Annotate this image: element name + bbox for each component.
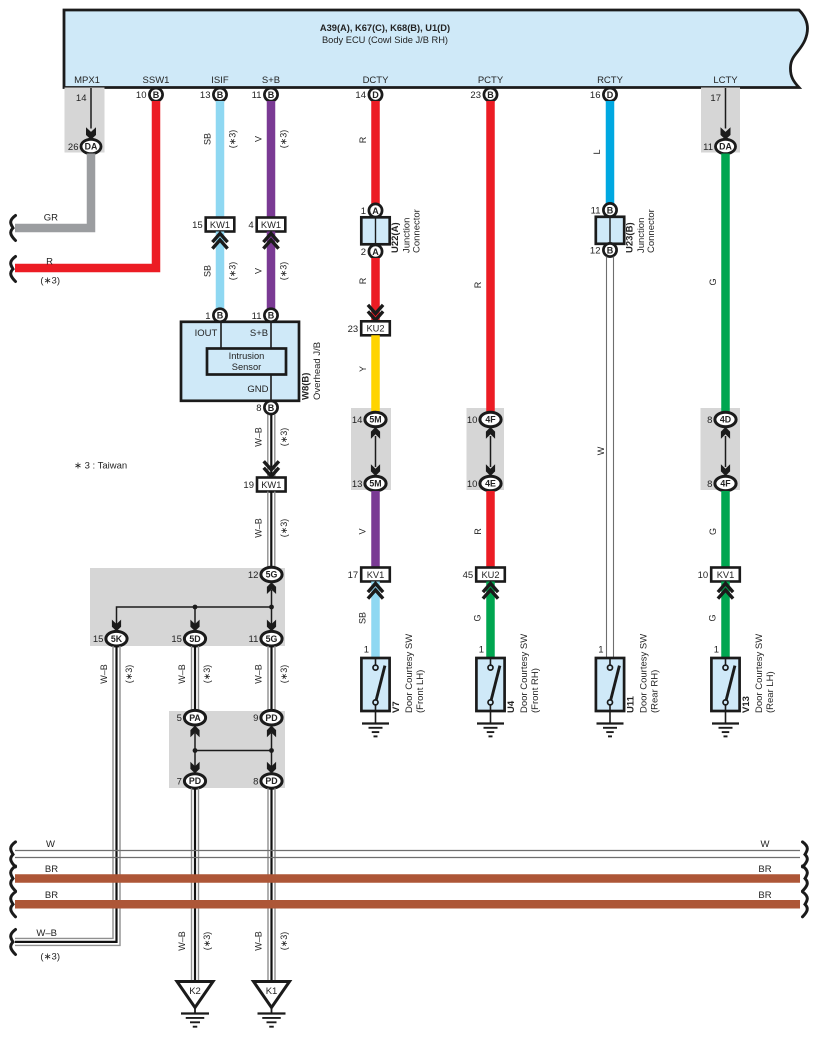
svg-text:8: 8 [256,403,261,414]
chevron arrows into KV1 pin 10 [718,584,733,599]
connector DA pin 26 [81,139,101,153]
svg-text:1: 1 [364,645,369,656]
svg-text:(Front LH): (Front LH) [415,670,426,713]
svg-text:BR: BR [758,864,771,875]
svg-text:U23(B): U23(B) [625,222,636,253]
svg-text:SB: SB [203,133,213,145]
wire G green to U4 [486,582,495,659]
svg-text:G: G [708,528,718,535]
wire W-B 5D to PA [191,646,193,711]
svg-text:8: 8 [707,415,712,426]
svg-text:(Rear LH): (Rear LH) [765,671,776,713]
connector KU2 pin 23 [361,321,390,335]
wire SB skyblue to V7 [371,582,380,659]
svg-text:26: 26 [68,142,79,153]
arrow out of 4F [486,427,495,439]
door courtesy switch U11 Rear RH [596,658,624,711]
connector 4E pin 10 [480,476,501,491]
svg-text:PD: PD [265,713,277,723]
shield box PCTY 4F/4E connectors [467,408,505,490]
wire break squiggle BR1 left [11,866,16,891]
wire SB skyblue ISIF lower [216,232,225,310]
svg-text:B: B [153,90,160,100]
svg-text:(∗3): (∗3) [228,130,238,149]
wire SB skyblue ISIF upper [216,101,225,218]
svg-text:10: 10 [136,90,147,101]
svg-text:11: 11 [591,206,601,217]
svg-text:10: 10 [467,479,478,490]
svg-text:KU2: KU2 [481,570,499,580]
wire R red PCTY upper [486,101,495,412]
svg-text:(∗3): (∗3) [279,130,289,149]
connector 5M pin 13 [365,476,386,491]
pin DCTY connector D 14 [369,88,382,101]
arrow into PD pin 8 [267,762,276,774]
arrow into PD pin 7 [190,762,199,774]
svg-text:KW1: KW1 [261,220,281,230]
svg-text:15: 15 [171,634,182,645]
chevron arrows into KW1 pin 4 [263,234,278,249]
wire break squiggle W left [11,842,16,867]
connector A pin 1 of U22 [369,204,382,217]
junction dot PD branch [269,748,274,753]
svg-text:12: 12 [248,570,259,581]
wire R red DCTY upper [371,101,380,204]
junction block wiring 5G to 5K/5D [271,590,273,607]
intrusion sensor inner box [207,349,286,375]
connector 4F pin 8 [715,476,736,491]
wire W-B from sensor GND [267,415,269,478]
ground K1 [254,982,290,1008]
connector PD pin 7 [184,774,205,789]
wire Y yellow DCTY [371,335,380,411]
arrow into 4E [486,464,495,476]
link line 4F to 4E [490,436,492,467]
svg-text:(∗3): (∗3) [279,932,289,951]
svg-text:(∗3): (∗3) [279,262,289,281]
svg-text:5M: 5M [369,479,381,489]
svg-text:KW1: KW1 [210,220,230,230]
svg-text:R: R [473,281,483,288]
pin MPX1 lead 14 with arrow [90,88,92,129]
arrow into 5K [112,620,121,632]
svg-text:U11: U11 [625,695,636,713]
junction dot PA branch [193,748,198,753]
chevron arrows into KW1 pin 19 [264,461,279,476]
svg-text:2: 2 [361,247,366,258]
svg-text:Intrusion: Intrusion [229,351,265,361]
wire break squiggle GR [11,216,16,241]
svg-text:IOUT: IOUT [195,328,218,339]
svg-text:10: 10 [467,415,478,426]
shield box LCTY 4D/4F connectors [701,408,741,490]
svg-text:10: 10 [698,570,709,581]
svg-text:R: R [473,528,483,535]
svg-text:23: 23 [348,324,359,335]
svg-text:(∗3): (∗3) [202,665,212,684]
svg-text:V: V [254,268,264,274]
svg-text:U22(A): U22(A) [390,222,401,253]
svg-text:GR: GR [44,213,58,224]
ECU box A39(A)/K67(C)/K68(B)/U1(D) Body ECU [64,10,807,88]
svg-text:1: 1 [714,645,719,656]
svg-text:B: B [607,205,614,215]
svg-text:4E: 4E [485,479,496,489]
svg-text:G: G [473,614,483,621]
svg-text:G: G [708,278,718,285]
wire W-B from 5K down and to left edge [15,646,113,938]
svg-text:14: 14 [355,90,366,101]
arrow into 5M pin 13 [371,464,380,476]
svg-text:14: 14 [352,415,363,426]
svg-text:W–B: W–B [36,928,57,939]
svg-text:13: 13 [200,90,211,101]
svg-text:19: 19 [243,480,254,491]
connector A pin 2 of U22 [369,245,382,258]
svg-text:KV1: KV1 [367,570,385,580]
svg-text:Door Courtesy SW: Door Courtesy SW [639,634,650,713]
svg-text:1: 1 [361,206,366,217]
svg-text:(Rear RH): (Rear RH) [649,670,660,713]
wire R red from SSW1 to left edge [15,101,156,268]
junction block box PA/PD [169,711,285,788]
connector 5M pin 14 [365,412,386,427]
junction connector U22(A) [361,217,389,244]
svg-text:W: W [596,446,606,455]
arrow into PD pin 9 [267,726,276,738]
svg-text:W–B: W–B [254,664,264,684]
svg-text:Connector: Connector [412,209,423,253]
chevron arrows into KV1 pin 17 [368,584,383,599]
connector B pin 1 intrusion sensor IOUT [213,309,226,322]
wire W white horizontal across page [15,850,800,852]
svg-text:8: 8 [253,777,258,788]
shield box at pin MPX1 [65,88,105,153]
connector KU2 pin 45 [476,568,505,582]
svg-text:K1: K1 [266,986,278,997]
svg-text:B: B [487,90,494,100]
svg-text:W: W [761,839,770,850]
svg-text:K2: K2 [189,986,201,997]
intrusion sensor W8(B) Overhead J/B box [181,322,299,401]
svg-text:Body ECU (Cowl Side J/B RH): Body ECU (Cowl Side J/B RH) [322,35,448,45]
connector KW1 pin 4 [257,218,286,232]
pin S+B connector B 11 [264,88,277,101]
wire GR gray from DA to left edge [15,154,91,229]
wire V violet DCTY [371,491,380,568]
wire BR brown horizontal 1 [15,874,800,883]
connector KW1 pin 15 [206,218,235,232]
svg-text:MPX1: MPX1 [74,75,100,86]
svg-text:1: 1 [598,645,603,656]
svg-text:7: 7 [177,777,182,788]
svg-text:W–B: W–B [177,664,187,684]
svg-text:17: 17 [710,93,721,104]
pin PCTY connector B 23 [484,88,497,101]
svg-text:1: 1 [479,645,484,656]
connector 5D pin 15 [184,631,205,646]
svg-text:BR: BR [758,890,771,901]
svg-text:4: 4 [248,220,253,231]
pin RCTY connector D 16 [603,88,616,101]
svg-text:16: 16 [590,90,601,101]
svg-text:BR: BR [45,890,58,901]
door courtesy switch V13 Rear LH [711,658,739,711]
svg-text:∗ 3 : Taiwan: ∗ 3 : Taiwan [74,461,127,472]
svg-text:Overhead J/B: Overhead J/B [312,342,323,400]
wire break squiggle BR2 right [803,892,808,917]
svg-text:B: B [268,90,275,100]
svg-text:SSW1: SSW1 [143,75,170,86]
wire break squiggle BR1 right [803,866,808,891]
connector 4F pin 10 [480,412,501,427]
svg-text:4F: 4F [485,415,496,425]
svg-text:Door Courtesy SW: Door Courtesy SW [519,634,530,713]
connector 5G pin 12 [261,567,282,582]
wire break squiggle W right [803,842,808,867]
svg-text:ISIF: ISIF [211,75,229,86]
chevron arrows into KU2 [368,305,383,320]
svg-text:S+B: S+B [262,75,280,86]
svg-text:D: D [372,90,379,100]
door courtesy switch U4 Front RH [476,658,504,711]
shield box at pin LCTY [701,88,740,153]
connector PD pin 8 [261,774,282,789]
svg-text:SB: SB [358,612,368,624]
svg-text:13: 13 [352,479,363,490]
svg-text:B: B [268,311,275,321]
svg-text:(∗3): (∗3) [279,428,289,447]
svg-text:R: R [358,277,368,284]
svg-text:W–B: W–B [177,931,187,951]
svg-text:5K: 5K [111,634,123,644]
svg-text:9: 9 [253,713,258,724]
svg-text:B: B [268,403,275,413]
junction connector U23(B) [596,217,624,244]
link line 4D to 4F [725,436,727,467]
connector PA pin 5 [184,710,205,725]
svg-text:W–B: W–B [254,931,264,951]
arrow into 5G pin 12 [267,582,276,594]
wire G green LCTY upper [721,154,730,412]
svg-text:Door Courtesy SW: Door Courtesy SW [754,634,765,713]
svg-text:B: B [607,245,614,255]
svg-text:U4: U4 [506,700,517,713]
connector 4D pin 8 [715,412,736,427]
svg-text:B: B [217,311,224,321]
svg-text:11: 11 [703,142,713,153]
svg-text:(∗3): (∗3) [228,262,238,281]
svg-text:SB: SB [203,265,213,277]
svg-text:A: A [372,206,379,216]
svg-text:LCTY: LCTY [713,75,738,86]
svg-text:S+B: S+B [250,328,268,339]
svg-text:Sensor: Sensor [232,362,261,372]
svg-text:Door Courtesy SW: Door Courtesy SW [404,634,415,713]
arrow out of 5M pin 14 [371,427,380,439]
svg-text:17: 17 [348,570,359,581]
door courtesy switch V7 Front LH [361,658,389,711]
wire W-B PD to ground K1 [267,788,269,981]
svg-text:Connector: Connector [646,209,657,253]
connector B pin 11 intrusion sensor S+B [264,309,277,322]
connector B pin 11 of U23 [603,203,616,216]
arrow into PA [190,726,199,738]
svg-text:4D: 4D [720,415,731,425]
arrow out of 4D [721,427,730,439]
svg-text:11: 11 [249,634,259,645]
svg-text:PCTY: PCTY [478,75,504,86]
wire G green LCTY middle [721,491,730,568]
pin SSW1 connector B 10 [149,88,162,101]
svg-text:DA: DA [719,142,732,152]
svg-text:15: 15 [93,634,104,645]
svg-text:PD: PD [265,776,277,786]
pin LCTY lead 17 with arrow [725,88,727,129]
svg-text:45: 45 [463,570,474,581]
connector 5K pin 15 [106,631,127,646]
wire break squiggle BR2 left [11,892,16,917]
connector KV1 pin 17 [361,568,390,582]
svg-text:KU2: KU2 [366,324,384,334]
svg-text:W: W [46,839,55,850]
svg-text:PA: PA [189,713,201,723]
connector PD pin 9 [261,710,282,725]
svg-text:23: 23 [470,90,481,101]
link line 5M to 5M [375,436,377,467]
svg-text:B: B [217,90,224,100]
wire W-B KW1 to 5G [267,492,269,568]
svg-text:(∗3): (∗3) [124,665,134,684]
svg-text:V: V [358,528,368,534]
pin ISIF connector B 13 [213,88,226,101]
wire W white RCTY to U11 [606,257,608,659]
connector 5G pin 11 [261,631,282,646]
svg-text:V13: V13 [741,696,752,713]
arrow into 5G pin 11 [267,620,276,632]
wire V violet S+B upper [267,101,276,218]
wire G green to V13 [721,582,730,659]
svg-text:W8(B): W8(B) [301,373,312,400]
svg-text:DA: DA [85,142,98,152]
wire R red DCTY middle [371,258,380,321]
svg-text:5G: 5G [266,634,278,644]
svg-text:(Front RH): (Front RH) [530,668,541,713]
svg-text:(∗3): (∗3) [40,276,60,287]
svg-text:15: 15 [192,220,203,231]
connector B pin 8 intrusion sensor GND [264,401,277,414]
svg-text:(∗3): (∗3) [202,932,212,951]
svg-text:W–B: W–B [254,518,264,538]
svg-text:G: G [708,614,718,621]
wire R red PCTY lower [486,491,495,568]
junction block wiring PA/PD to PD/PD [195,733,272,769]
wire V violet S+B lower [267,232,276,310]
svg-text:D: D [607,90,614,100]
ground K2 [177,982,213,1008]
wire BR brown horizontal 2 [15,900,800,909]
svg-text:(∗3): (∗3) [40,952,60,963]
wire break squiggle R [11,257,16,282]
junction block box 5G/5K/5D [90,568,285,646]
arrow into 5D [190,620,199,632]
svg-text:KV1: KV1 [717,570,735,580]
svg-text:12: 12 [590,246,601,257]
connector DA pin 11 [716,139,736,153]
svg-text:BR: BR [45,864,58,875]
svg-text:R: R [46,257,53,268]
junction dot at 5D branch [193,605,198,610]
svg-text:V: V [254,136,264,142]
svg-text:14: 14 [76,93,87,104]
arrow into 4F [721,464,730,476]
svg-text:A: A [372,247,379,257]
svg-text:RCTY: RCTY [597,75,624,86]
svg-text:11: 11 [252,311,262,322]
svg-text:(∗3): (∗3) [279,519,289,538]
wire W-B 5G to PD [267,646,269,711]
svg-text:PD: PD [189,776,201,786]
svg-text:W–B: W–B [99,664,109,684]
svg-text:1: 1 [205,311,210,322]
connector KW1 pin 19 [257,478,286,492]
chevron arrows into KW1 [212,234,227,249]
svg-text:R: R [358,136,368,143]
wire break squiggle W-B bottom left [11,930,16,955]
svg-text:5D: 5D [189,634,200,644]
svg-text:5: 5 [177,713,182,724]
svg-text:5M: 5M [369,415,381,425]
shield box DCTY 5M connectors [351,408,391,490]
connector KV1 pin 10 [711,568,740,582]
svg-text:5G: 5G [266,570,278,580]
svg-text:V7: V7 [391,701,402,713]
svg-text:4F: 4F [720,479,731,489]
svg-text:DCTY: DCTY [363,75,390,86]
svg-text:Y: Y [358,366,368,372]
chevron arrows into KU2 pin 45 [483,584,498,599]
svg-text:11: 11 [252,90,262,101]
svg-text:L: L [592,149,602,154]
svg-text:(∗3): (∗3) [279,665,289,684]
svg-text:KW1: KW1 [261,480,281,490]
wire W-B PD to ground K2 [191,788,193,981]
svg-text:GND: GND [247,384,268,395]
svg-text:A39(A), K67(C), K68(B), U1(D): A39(A), K67(C), K68(B), U1(D) [320,23,450,33]
junction dot at 5G branch [269,605,274,610]
wire L blue RCTY [606,101,615,204]
connector B pin 12 of U23 [603,243,616,256]
svg-text:8: 8 [707,479,712,490]
svg-text:W–B: W–B [254,427,264,447]
